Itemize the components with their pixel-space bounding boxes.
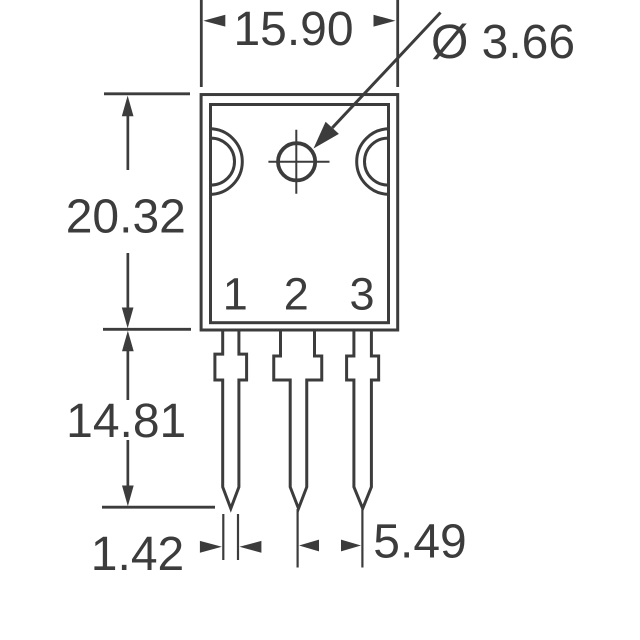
svg-text:3: 3	[349, 268, 374, 319]
svg-text:1: 1	[223, 268, 248, 319]
svg-text:2: 2	[284, 268, 309, 319]
svg-text:5.49: 5.49	[373, 515, 466, 568]
svg-text:15.90: 15.90	[233, 3, 353, 56]
svg-text:Ø 3.66: Ø 3.66	[431, 16, 575, 69]
svg-text:14.81: 14.81	[66, 395, 186, 448]
svg-text:20.32: 20.32	[66, 191, 186, 244]
svg-text:1.42: 1.42	[91, 528, 184, 581]
